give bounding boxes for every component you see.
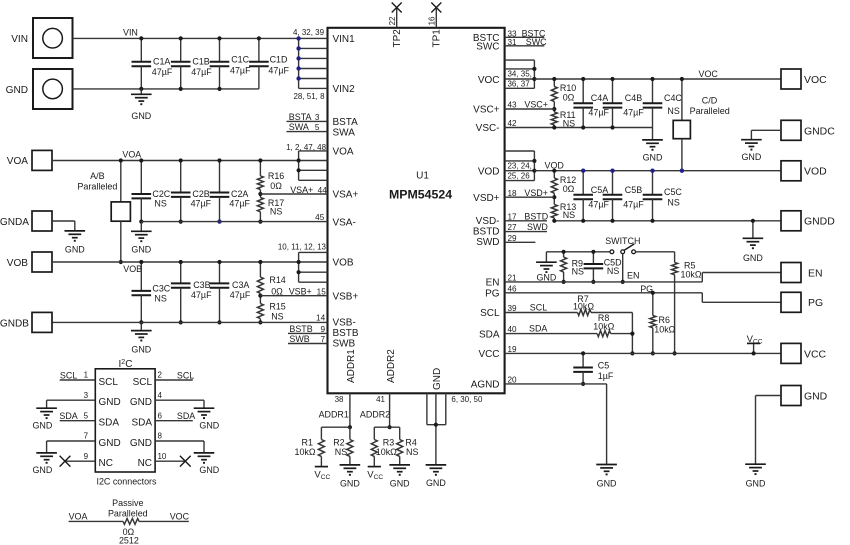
node junction C4B top: [610, 77, 614, 81]
capacitor C2B 47uF: [171, 161, 212, 222]
node junction VOA bus rail: [297, 158, 301, 162]
node junction switch pole on EN rail: [621, 280, 625, 284]
node junction C/D jumper top on VOC rail: [680, 77, 684, 81]
svg-text:47µF: 47µF: [191, 67, 212, 77]
ground symbol below R4: [389, 464, 410, 466]
wire VSB+ pin 15: [260, 287, 327, 297]
wire VOA pin bus 1 2 47 48: [286, 143, 327, 180]
connector VOB: [7, 252, 52, 272]
wire VCC rail pin 19: [505, 345, 781, 354]
svg-text:GND: GND: [804, 391, 828, 402]
svg-text:VOB: VOB: [333, 258, 354, 269]
wire VOD rail with net label: [534, 161, 781, 171]
svg-text:0Ω: 0Ω: [563, 93, 575, 103]
node junction R15 bottom on VSB- rail: [258, 320, 262, 324]
wire net SWB pin 7: [288, 334, 328, 344]
wire net SCL I2C pin 1: [60, 371, 96, 381]
svg-text:23, 24,: 23, 24,: [508, 161, 532, 170]
svg-text:47µF: 47µF: [191, 199, 212, 209]
wire GNDC to ground: [751, 130, 781, 139]
svg-text:36, 37: 36, 37: [508, 80, 531, 89]
node junction ADDR2: [388, 425, 392, 429]
svg-text:GND: GND: [432, 368, 443, 390]
svg-text:GND: GND: [746, 478, 766, 488]
node junction VOC bus stub: [532, 67, 536, 71]
wire I2C pin 4 to ground: [155, 391, 204, 408]
svg-text:NS: NS: [572, 267, 584, 277]
node junction A/B jumper on VOA rail: [119, 158, 123, 162]
svg-text:VSD+: VSD+: [473, 193, 499, 204]
wire I2C pin 7 to ground: [47, 432, 96, 453]
node junction C2A bottom: [217, 219, 221, 223]
svg-text:TP2: TP2: [392, 29, 403, 48]
ground symbol below R2: [340, 464, 361, 466]
wire net BSTD label on VSD- pin 17: [505, 212, 549, 222]
node junction R9 bottom on EN rail: [562, 280, 566, 284]
node junction C2B bottom: [179, 220, 183, 224]
test point TP2 pin 22: [388, 3, 402, 28]
node junction VOC bus rail: [532, 77, 536, 81]
wire VOA rail with net label: [52, 149, 299, 160]
node junction C5 top on VCC rail: [581, 351, 585, 355]
capacitor C3C NS: [132, 262, 171, 322]
svg-text:C5B: C5B: [625, 185, 642, 195]
node junction VOD bus rail: [532, 169, 536, 173]
node junction C1C bottom: [217, 87, 221, 91]
ground symbol I2C pin 4: [194, 407, 215, 409]
resistor 0ohm 2512 passive parallel VOA to VOC: [69, 498, 190, 545]
jumper A/B paralleled: [77, 161, 130, 263]
resistor R4 NS: [397, 427, 419, 465]
svg-text:VOC: VOC: [170, 512, 190, 522]
svg-text:PG: PG: [808, 298, 823, 309]
capacitor C5B 47uF: [603, 171, 645, 221]
node junction C3B bottom: [179, 320, 183, 324]
svg-text:NS: NS: [270, 207, 282, 217]
node junction R16 R17 VSA+ tap: [258, 192, 262, 196]
svg-text:21: 21: [508, 273, 518, 282]
wire VSA+ pin 44: [260, 185, 327, 195]
node junction C1B bottom: [179, 87, 183, 91]
node junction C1B top: [179, 36, 183, 40]
wire VOB pin bus 10 11 12 13: [278, 242, 328, 282]
svg-text:10kΩ: 10kΩ: [593, 321, 614, 331]
svg-text:BSTD: BSTD: [524, 212, 548, 222]
svg-text:VOC: VOC: [699, 69, 719, 79]
svg-text:NS: NS: [154, 294, 166, 304]
node junction R10 R11 VSC+ tap: [552, 107, 556, 111]
connector I2C header: [95, 359, 157, 486]
capacitor C4C NS: [643, 79, 683, 128]
svg-text:ADDR2: ADDR2: [360, 410, 390, 420]
svg-text:47µF: 47µF: [230, 65, 251, 75]
resistor R16 0ohm: [257, 161, 284, 195]
svg-text:SCL: SCL: [99, 377, 119, 388]
node junction A/B jumper on VOB rail: [119, 260, 123, 264]
wire GND pins 6 30 50: [427, 393, 483, 465]
node junction R5 bottom on VCC rail: [673, 351, 677, 355]
node junction C5A bottom: [581, 219, 585, 223]
resistor R11 NS: [551, 109, 575, 129]
connector VOD output: [781, 161, 827, 181]
svg-text:19: 19: [508, 345, 518, 354]
ground symbol GNDC: [741, 139, 762, 141]
connector EN: [781, 263, 823, 283]
svg-text:C/D: C/D: [702, 96, 718, 106]
node junction C3B top: [179, 260, 183, 264]
svg-text:VIN: VIN: [11, 34, 28, 45]
ground symbol GNDA: [65, 230, 86, 232]
wire AGND rail pin 20 to ground: [505, 375, 607, 464]
svg-text:VOA: VOA: [122, 149, 141, 159]
wire ADDR2 pin 41: [360, 393, 390, 427]
capacitor C5 1uF: [573, 353, 614, 384]
wire switch throw to R5: [636, 252, 675, 263]
svg-text:VSB+: VSB+: [333, 291, 359, 302]
node junction C3A top: [217, 260, 221, 264]
wire ADDR1 pin 38: [319, 393, 350, 427]
ground symbol on GNDD rail: [743, 221, 764, 263]
node junction C2C bottom: [139, 220, 143, 224]
svg-text:VIN2: VIN2: [333, 84, 356, 95]
node junction C3A bottom: [217, 320, 221, 324]
svg-text:BSTD: BSTD: [473, 227, 500, 238]
svg-text:VCC: VCC: [804, 349, 826, 360]
wire VOC pin bus 34 35 36 37: [505, 60, 535, 89]
wire NC I2C pin 9 no-connect: [60, 452, 96, 467]
resistor R17 NS: [257, 194, 284, 222]
svg-text:2512: 2512: [119, 536, 139, 545]
node junctions VIN bus: [296, 36, 300, 81]
svg-text:ADDR2: ADDR2: [386, 349, 397, 383]
node junction C3C bottom: [139, 320, 143, 324]
svg-text:SDA: SDA: [59, 411, 77, 421]
wire net BSTB pin 9: [288, 324, 328, 334]
capacitor C5C NS: [643, 171, 683, 221]
power symbol VCC on rail: [753, 343, 755, 353]
resistor R3 10k: [371, 427, 397, 457]
node junction R12 R13 VSD+ tap: [552, 195, 556, 199]
svg-text:47µF: 47µF: [623, 107, 644, 117]
svg-text:GND: GND: [340, 478, 360, 488]
svg-text:GND: GND: [199, 420, 219, 430]
svg-text:SCL: SCL: [60, 371, 77, 381]
svg-text:0Ω: 0Ω: [270, 181, 282, 191]
node junction ADDR1: [348, 425, 352, 429]
wire SDA rail pin 40 with resistor R8 10k: [505, 313, 633, 336]
node junction VCC symbol tap: [752, 351, 756, 355]
connector VCC: [781, 343, 826, 363]
svg-text:I2C connectors: I2C connectors: [96, 476, 157, 486]
svg-text:17: 17: [508, 213, 518, 222]
svg-text:C2C: C2C: [152, 189, 170, 199]
svg-text:Paralleled: Paralleled: [690, 106, 730, 116]
ground symbol I2C pin 8: [194, 452, 215, 454]
svg-text:9: 9: [321, 325, 326, 334]
svg-text:SWD: SWD: [476, 237, 499, 248]
svg-text:15: 15: [317, 288, 327, 297]
U1 top pin names TP2 TP1: [392, 29, 443, 48]
svg-text:NS: NS: [154, 198, 166, 208]
svg-text:GND: GND: [32, 465, 52, 475]
svg-text:SDA: SDA: [99, 418, 120, 429]
svg-text:1, 2, 47, 48: 1, 2, 47, 48: [286, 143, 326, 152]
ground symbol below C2C: [131, 222, 152, 255]
svg-text:GND: GND: [130, 397, 152, 408]
svg-text:42: 42: [508, 119, 518, 128]
connector GND output header: [781, 386, 828, 406]
wire net BSTA pin 3: [287, 112, 328, 122]
wire net BSTC pin 33: [505, 28, 546, 38]
U1 right pin names: [471, 33, 500, 391]
svg-text:41: 41: [376, 395, 385, 404]
svg-text:29: 29: [508, 234, 518, 243]
svg-text:1: 1: [84, 371, 89, 380]
node junction C4A top: [581, 77, 585, 81]
node junction VOD bus stub: [532, 159, 536, 163]
jumper C/D paralleled: [673, 79, 730, 171]
wire PG rail pin 46 with net label: [505, 284, 781, 303]
svg-text:GND: GND: [426, 478, 446, 488]
svg-text:GND: GND: [741, 152, 761, 162]
node junction R14 R15 VSB+ tap: [258, 294, 262, 298]
svg-text:C3C: C3C: [152, 284, 170, 294]
svg-text:C5A: C5A: [591, 185, 608, 195]
svg-text:EN: EN: [808, 268, 823, 279]
svg-text:6, 30, 50: 6, 30, 50: [451, 395, 483, 404]
svg-text:C1A: C1A: [153, 57, 170, 67]
svg-text:VOA: VOA: [69, 512, 88, 522]
svg-text:SDA: SDA: [479, 329, 500, 340]
svg-text:VOA: VOA: [333, 147, 354, 158]
wire SCL rail pin 39 with resistor R7 10k: [505, 294, 633, 353]
power module U1 MPM54524 body: [328, 28, 505, 394]
svg-text:R15: R15: [269, 302, 285, 312]
svg-text:10kΩ: 10kΩ: [654, 324, 675, 334]
test point TP1 pin 16: [428, 3, 442, 28]
connector GND (input jack): [6, 69, 73, 109]
connector GNDC: [781, 120, 835, 140]
svg-text:U1: U1: [416, 171, 429, 182]
wire NC I2C pin 10 no-connect: [155, 452, 191, 467]
svg-text:GNDB: GNDB: [0, 318, 29, 329]
svg-text:I2C: I2C: [119, 359, 133, 370]
node junction R17 bottom on VSA- rail: [258, 220, 262, 224]
svg-text:5: 5: [84, 411, 89, 420]
svg-text:GND: GND: [199, 465, 219, 475]
svg-text:C5C: C5C: [664, 187, 682, 197]
svg-text:NS: NS: [607, 266, 619, 276]
node junction C4C top: [650, 77, 654, 81]
svg-text:PG: PG: [485, 289, 500, 300]
svg-text:43: 43: [508, 101, 518, 110]
svg-text:VSD+: VSD+: [524, 188, 548, 198]
svg-text:R16: R16: [268, 171, 284, 181]
svg-text:VSB+: VSB+: [289, 287, 312, 297]
svg-text:25, 26: 25, 26: [508, 172, 531, 181]
wire VOB rail with net label: [52, 262, 299, 274]
capacitor C3B 47uF: [171, 262, 212, 322]
svg-text:GNDD: GNDD: [804, 217, 835, 228]
capacitor C4B 47uF: [603, 79, 645, 128]
wire net SDA I2C pin 5: [59, 411, 95, 421]
svg-text:VSA-: VSA-: [333, 217, 356, 228]
svg-text:47µF: 47µF: [588, 107, 609, 117]
connector VIN (input jack): [11, 18, 72, 58]
svg-text:ADDR1: ADDR1: [319, 410, 349, 420]
svg-text:40: 40: [508, 325, 518, 334]
svg-text:NS: NS: [335, 447, 347, 457]
svg-text:45: 45: [315, 213, 325, 222]
svg-text:GND: GND: [131, 111, 151, 121]
node junction GNDD ground tap: [751, 219, 755, 223]
svg-text:47µF: 47µF: [588, 199, 609, 209]
svg-text:46: 46: [508, 284, 518, 293]
connector GNDA: [0, 211, 52, 231]
svg-text:GND: GND: [131, 245, 151, 255]
node junction C1C top: [217, 36, 221, 40]
svg-text:47µF: 47µF: [229, 199, 250, 209]
node junctions VOD rail: [581, 169, 684, 173]
node junction SDA pullup: [630, 332, 634, 336]
svg-text:47µF: 47µF: [268, 65, 289, 75]
node junction R10 top on VOC rail: [552, 77, 556, 81]
svg-text:38: 38: [335, 395, 344, 404]
node junction C2B top: [179, 158, 183, 162]
wire net SWA pin 5: [287, 122, 328, 132]
svg-text:GND: GND: [390, 478, 410, 488]
svg-text:MPM54524: MPM54524: [389, 187, 452, 201]
svg-text:VSC+: VSC+: [524, 100, 548, 110]
svg-text:10kΩ: 10kΩ: [573, 301, 594, 311]
svg-text:10kΩ: 10kΩ: [681, 270, 702, 280]
svg-text:NS: NS: [271, 312, 283, 322]
svg-text:TP1: TP1: [431, 29, 442, 48]
resistor R9 NS: [561, 252, 584, 282]
svg-text:4: 4: [158, 391, 163, 400]
wire VSC- rail pin 42: [505, 119, 653, 128]
ground symbol below GND header: [745, 463, 766, 465]
svg-text:VSA+: VSA+: [333, 190, 359, 201]
resistor R5 10k: [672, 260, 702, 353]
svg-text:SWITCH: SWITCH: [605, 236, 640, 246]
svg-text:EN: EN: [486, 278, 500, 289]
svg-text:39: 39: [508, 304, 518, 313]
capacitor C5A 47uF: [573, 171, 609, 221]
svg-text:SCL: SCL: [530, 302, 547, 312]
wire switch pole to EN rail: [622, 254, 624, 282]
resistor R13 NS: [551, 197, 576, 221]
resistor R10 0ohm: [551, 79, 576, 109]
svg-text:VIN: VIN: [123, 28, 138, 38]
svg-text:VCC: VCC: [478, 349, 499, 360]
wire R3 to R4: [374, 426, 399, 428]
wire switch top rail: [546, 251, 610, 253]
svg-text:R4: R4: [405, 438, 416, 448]
svg-text:47µF: 47µF: [623, 199, 644, 209]
svg-text:VSA+: VSA+: [290, 185, 313, 195]
svg-text:SDA: SDA: [529, 324, 547, 334]
svg-text:NS: NS: [563, 210, 575, 220]
svg-text:47µF: 47µF: [230, 290, 251, 300]
wire VSD+ pin 18: [505, 188, 555, 198]
svg-text:0Ω: 0Ω: [271, 286, 283, 296]
wire VSC+ pin 43: [505, 100, 555, 110]
capacitor C1A 47uF: [132, 38, 173, 89]
wire net SWD pin 27: [505, 222, 549, 232]
svg-text:C1C: C1C: [231, 55, 249, 65]
power symbol VCC below R3: [373, 456, 375, 466]
node junction R14 top on VOB rail: [258, 260, 262, 264]
node junction C1A top: [139, 36, 143, 40]
svg-text:VSC+: VSC+: [473, 105, 499, 116]
capacitor C3A 47uF: [210, 262, 251, 322]
svg-text:NS: NS: [667, 197, 679, 207]
svg-text:18: 18: [508, 189, 518, 198]
svg-text:10kΩ: 10kΩ: [376, 447, 397, 457]
node junction C5 bottom on AGND rail: [581, 382, 585, 386]
svg-text:47µF: 47µF: [191, 290, 212, 300]
svg-text:NS: NS: [667, 106, 679, 116]
wire net SCL I2C pin 2: [155, 371, 194, 381]
svg-text:20: 20: [508, 375, 518, 384]
svg-text:GND: GND: [597, 478, 617, 488]
ground symbol below U1 GND pins: [426, 464, 447, 466]
capacitor C1C 47uF: [210, 38, 251, 89]
svg-text:SWB: SWB: [289, 334, 309, 344]
connector GNDD: [781, 211, 835, 231]
wire net SDA I2C pin 6: [155, 411, 195, 421]
wire net SWC pin 31: [505, 37, 548, 47]
svg-text:VOB: VOB: [7, 258, 29, 269]
svg-text:Paralleled: Paralleled: [108, 508, 148, 518]
svg-text:4, 32, 39: 4, 32, 39: [293, 28, 325, 37]
svg-text:ADDR1: ADDR1: [346, 349, 357, 383]
capacitor C2C NS: [132, 161, 171, 222]
svg-text:VSC-: VSC-: [476, 123, 500, 134]
node junction C5B bottom: [610, 219, 614, 223]
svg-text:9: 9: [84, 452, 89, 461]
svg-text:VOB: VOB: [123, 264, 142, 274]
svg-text:SWB: SWB: [333, 338, 356, 349]
wire VIN rail with net label: [73, 28, 299, 39]
wire GNDA to ground: [52, 221, 75, 231]
capacitor C5D NS: [584, 252, 623, 282]
resistor R12 0ohm: [551, 171, 576, 198]
svg-text:SWC: SWC: [526, 37, 547, 47]
resistor R6 10k pull to VCC: [650, 293, 676, 354]
capacitor C1B 47uF: [171, 38, 212, 89]
svg-text:C4A: C4A: [591, 93, 608, 103]
svg-text:BSTB: BSTB: [289, 324, 312, 334]
connector PG: [781, 292, 823, 312]
svg-text:14: 14: [316, 313, 326, 322]
node junction C4B bottom: [610, 125, 614, 129]
svg-text:8: 8: [158, 432, 163, 441]
wire GND return rail: [73, 88, 259, 90]
svg-text:NC: NC: [138, 458, 152, 469]
svg-text:47µF: 47µF: [152, 67, 173, 77]
svg-text:SDA: SDA: [177, 411, 195, 421]
svg-text:34, 35,: 34, 35,: [508, 70, 532, 79]
node junction C2A top: [217, 158, 221, 162]
svg-text:GND: GND: [32, 420, 52, 430]
node junction R6 bottom on VCC rail: [651, 351, 655, 355]
svg-text:SWA: SWA: [333, 127, 356, 138]
ground symbol I2C pin 3: [36, 407, 57, 409]
svg-text:7: 7: [321, 335, 326, 344]
svg-text:VOC: VOC: [804, 75, 827, 86]
